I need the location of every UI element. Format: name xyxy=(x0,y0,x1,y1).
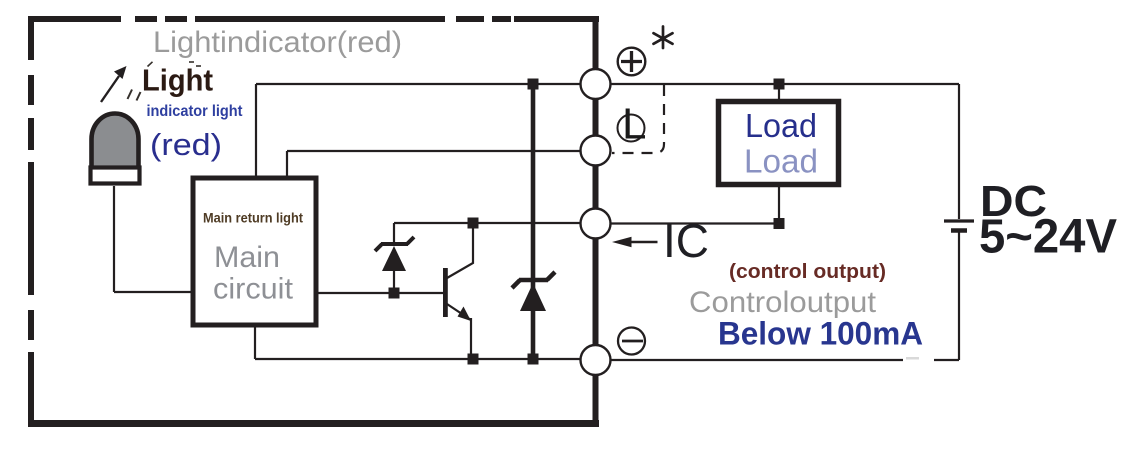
svg-text:Controloutput: Controloutput xyxy=(689,286,877,319)
svg-text:circuit: circuit xyxy=(213,273,294,306)
svg-text:(control output): (control output) xyxy=(729,261,886,283)
svg-text:Below 100mA: Below 100mA xyxy=(718,316,923,352)
svg-text:indicator light: indicator light xyxy=(147,103,244,120)
svg-text:Main: Main xyxy=(214,241,280,274)
svg-text:5~24V: 5~24V xyxy=(979,211,1117,264)
svg-text:Light: Light xyxy=(142,63,213,98)
svg-text:(red): (red) xyxy=(150,127,222,162)
svg-text:Main return light: Main return light xyxy=(203,210,303,226)
svg-text:L: L xyxy=(622,100,646,149)
svg-text:Load: Load xyxy=(744,143,818,180)
svg-text:IC: IC xyxy=(663,214,709,267)
svg-text:Load: Load xyxy=(745,107,817,144)
svg-text:Lightindicator(red): Lightindicator(red) xyxy=(153,26,402,59)
